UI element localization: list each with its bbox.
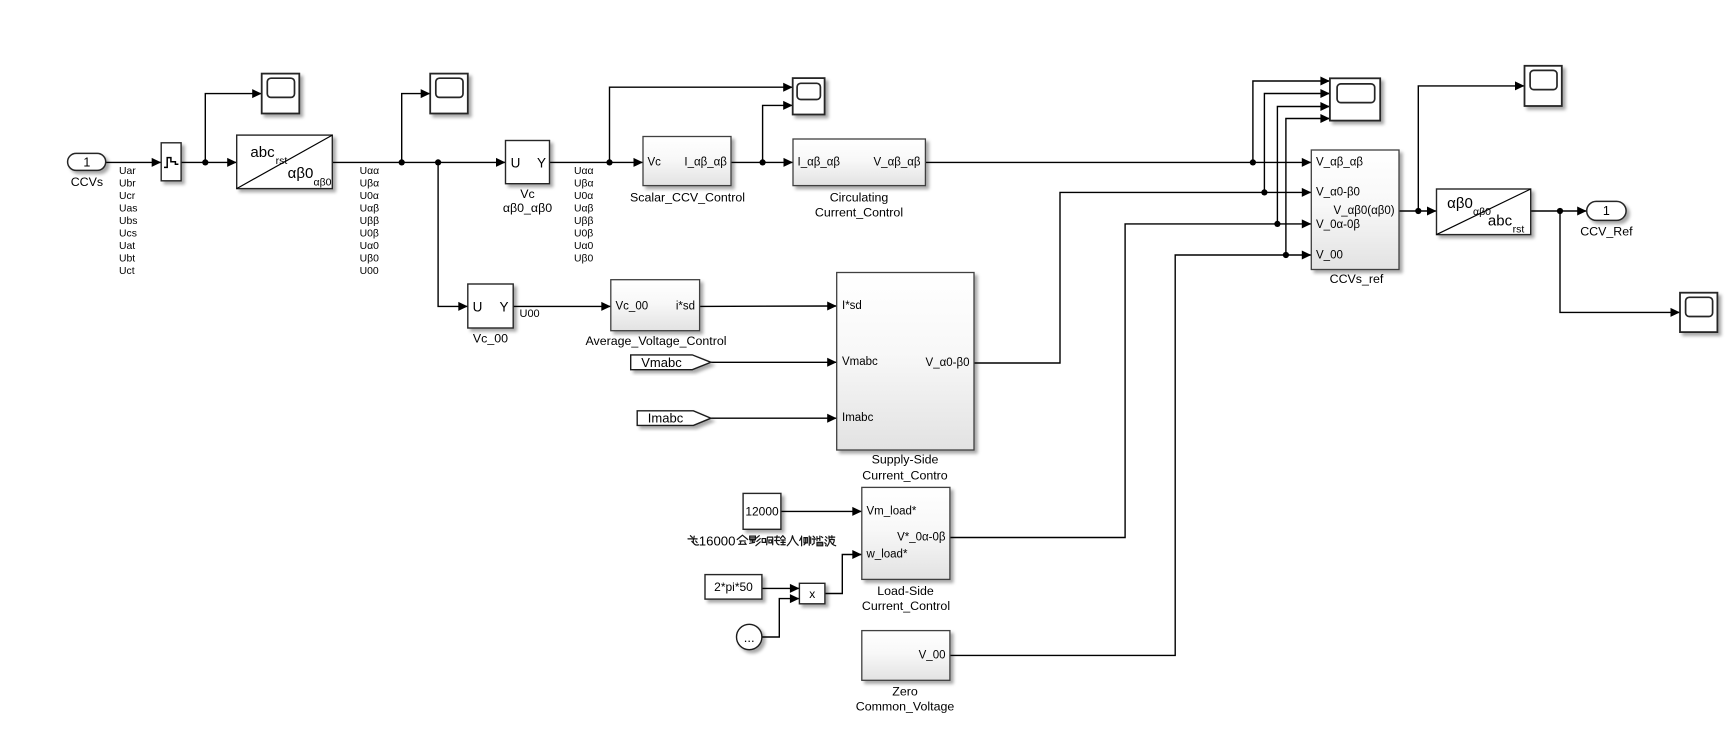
svg-text:Current_Contro: Current_Contro <box>862 468 948 482</box>
svg-text:Uat: Uat <box>119 241 135 252</box>
svg-text:Vc_00: Vc_00 <box>616 300 649 312</box>
svg-text:Vmabc: Vmabc <box>641 355 682 370</box>
svg-text:I_αβ_αβ: I_αβ_αβ <box>798 156 841 168</box>
svg-text:Zero: Zero <box>892 684 918 698</box>
svg-text:12000: 12000 <box>745 504 779 518</box>
svg-text:Uββ: Uββ <box>574 216 593 227</box>
svg-text:V*_0α-0β: V*_0α-0β <box>897 532 946 544</box>
svg-text:U0β: U0β <box>574 229 593 240</box>
svg-text:V_00: V_00 <box>919 649 946 661</box>
svg-text:Average_Voltage_Control: Average_Voltage_Control <box>586 334 727 348</box>
svg-text:U0α: U0α <box>360 191 379 202</box>
svg-text:Uαα: Uαα <box>360 166 380 177</box>
svg-text:Uβ0: Uβ0 <box>574 254 593 265</box>
svg-text:Current_Control: Current_Control <box>815 205 903 219</box>
svg-text:Uar: Uar <box>119 166 136 177</box>
svg-text:αβ0: αβ0 <box>314 177 332 189</box>
svg-text:Ucr: Ucr <box>119 191 136 202</box>
svg-text:V_α0-β0: V_α0-β0 <box>926 357 970 369</box>
svg-text:V_0α-0β: V_0α-0β <box>1316 219 1360 231</box>
svg-text:i*sd: i*sd <box>676 300 695 312</box>
svg-text:Uβα: Uβα <box>360 178 380 189</box>
svg-text:...: ... <box>744 630 755 645</box>
svg-text:αβ0: αβ0 <box>1447 195 1473 212</box>
svg-text:abc: abc <box>250 144 275 161</box>
svg-text:Scalar_CCV_Control: Scalar_CCV_Control <box>630 190 745 204</box>
svg-text:Uαβ: Uαβ <box>574 204 594 215</box>
svg-text:Load-Side: Load-Side <box>877 584 934 598</box>
svg-text:Vc: Vc <box>648 156 662 168</box>
svg-text:Imabc: Imabc <box>842 412 874 424</box>
svg-text:Uα0: Uα0 <box>574 241 594 252</box>
svg-text:Supply-Side: Supply-Side <box>872 452 939 466</box>
svg-text:αβ0: αβ0 <box>288 165 314 182</box>
svg-text:Ubs: Ubs <box>119 216 137 227</box>
svg-text:Ubt: Ubt <box>119 254 135 265</box>
svg-text:rst: rst <box>276 155 288 167</box>
svg-text:Vc: Vc <box>520 187 534 201</box>
svg-text:U0β: U0β <box>360 229 379 240</box>
svg-text:1: 1 <box>83 156 90 170</box>
svg-text:V_αβ_αβ: V_αβ_αβ <box>1316 156 1363 168</box>
svg-text:Ucs: Ucs <box>119 229 137 240</box>
svg-text:U00: U00 <box>520 308 540 320</box>
svg-text:Vm_load*: Vm_load* <box>867 506 917 518</box>
svg-text:16000: 16000 <box>699 533 736 548</box>
svg-text:Y: Y <box>537 156 546 171</box>
svg-text:I_αβ_αβ: I_αβ_αβ <box>684 156 727 168</box>
svg-text:Vmabc: Vmabc <box>842 356 878 368</box>
svg-text:Y: Y <box>499 299 508 314</box>
svg-text:Uαβ: Uαβ <box>360 204 380 215</box>
svg-text:Common_Voltage: Common_Voltage <box>856 700 955 714</box>
svg-text:x: x <box>809 587 815 601</box>
svg-text:U0α: U0α <box>574 191 593 202</box>
svg-text:Uαα: Uαα <box>574 166 594 177</box>
svg-text:Uβ0: Uβ0 <box>360 254 379 265</box>
svg-text:I*sd: I*sd <box>842 300 862 312</box>
svg-text:CCVs_ref: CCVs_ref <box>1330 272 1384 286</box>
svg-text:1: 1 <box>1603 204 1610 218</box>
svg-text:Uβα: Uβα <box>574 178 594 189</box>
svg-text:Uββ: Uββ <box>360 216 379 227</box>
svg-text:V_αβ0(αβ0): V_αβ0(αβ0) <box>1334 205 1395 217</box>
svg-text:V_αβ_αβ: V_αβ_αβ <box>874 156 921 168</box>
svg-text:2*pi*50: 2*pi*50 <box>714 580 753 594</box>
svg-text:U: U <box>473 299 483 314</box>
svg-text:V_00: V_00 <box>1316 250 1343 262</box>
svg-text:Vc_00: Vc_00 <box>473 332 508 346</box>
svg-text:U: U <box>511 156 521 171</box>
svg-text:U00: U00 <box>360 266 379 277</box>
svg-text:rst: rst <box>1513 224 1525 236</box>
svg-text:Imabc: Imabc <box>648 411 684 426</box>
svg-text:Uas: Uas <box>119 204 137 215</box>
svg-text:Circulating: Circulating <box>830 190 889 204</box>
svg-text:abc: abc <box>1488 213 1513 230</box>
svg-text:Current_Control: Current_Control <box>862 599 950 613</box>
svg-text:CCV_Ref: CCV_Ref <box>1580 225 1633 239</box>
svg-text:V_α0-β0: V_α0-β0 <box>1316 186 1360 198</box>
svg-text:Ubr: Ubr <box>119 178 136 189</box>
svg-text:Uα0: Uα0 <box>360 241 380 252</box>
svg-text:CCVs: CCVs <box>71 175 103 189</box>
svg-text:Uct: Uct <box>119 266 135 277</box>
svg-text:αβ0_αβ0: αβ0_αβ0 <box>503 201 552 215</box>
svg-text:w_load*: w_load* <box>866 549 908 561</box>
